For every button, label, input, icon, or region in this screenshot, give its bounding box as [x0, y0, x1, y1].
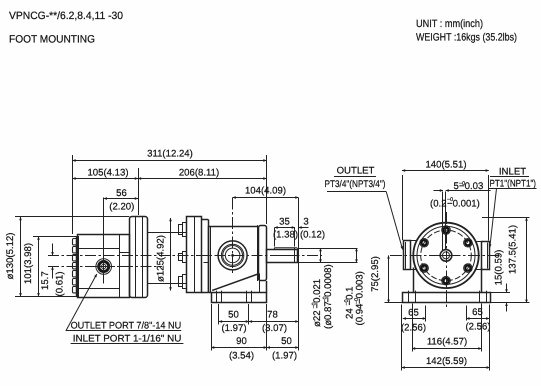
svg-text:50: 50 — [281, 336, 292, 347]
inlet label front view — [488, 166, 537, 247]
dim phi130 — [5, 217, 129, 297]
bolt circle — [421, 230, 472, 281]
foot base front view — [403, 291, 491, 303]
svg-text:UNIT : mm(inch): UNIT : mm(inch) — [416, 18, 483, 30]
svg-text:(1.97): (1.97) — [221, 323, 246, 334]
svg-text:FOOT MOUNTING: FOOT MOUNTING — [9, 34, 95, 46]
svg-text:206(8.11): 206(8.11) — [179, 167, 219, 178]
dim 137.5 — [482, 218, 530, 303]
svg-text:311(12.24): 311(12.24) — [147, 149, 193, 160]
dim 15 foot height — [491, 250, 511, 312]
dim 78 — [249, 309, 299, 334]
front body block — [78, 235, 130, 298]
cover bolt bottom — [442, 276, 451, 285]
front view vertical centerline — [446, 212, 448, 309]
svg-text:101(3.98): 101(3.98) — [23, 243, 34, 284]
svg-text:90: 90 — [236, 336, 247, 347]
dim phi125 — [156, 218, 171, 291]
dim 3 — [299, 216, 326, 240]
svg-text:65: 65 — [472, 307, 483, 318]
svg-text:ø130(5.12): ø130(5.12) — [5, 233, 16, 280]
dim 15.7 — [40, 244, 66, 297]
bearing boss circles — [218, 198, 247, 274]
dim 105 — [73, 167, 139, 215]
drive shaft — [267, 248, 298, 263]
svg-text:(2.56): (2.56) — [401, 322, 426, 333]
svg-text:(0.12): (0.12) — [300, 230, 325, 241]
svg-text:3: 3 — [303, 216, 308, 227]
svg-text:(ø0.87: (ø0.87 — [323, 301, 334, 329]
dim 140 — [402, 159, 489, 240]
dim 50 right — [267, 336, 299, 361]
svg-text:50: 50 — [228, 309, 239, 320]
rear housing — [187, 216, 209, 292]
main bearing housing — [208, 225, 258, 292]
main centerline (side view) — [48, 255, 322, 257]
svg-text:56: 56 — [116, 188, 127, 199]
svg-text:PT3/4"(NPT3/4"): PT3/4"(NPT3/4") — [325, 179, 386, 190]
pump body outer circle — [413, 223, 478, 288]
svg-text:142(5.59): 142(5.59) — [426, 356, 467, 367]
svg-text:OUTLET: OUTLET — [337, 165, 375, 176]
dim 75 — [370, 255, 402, 302]
svg-text:−0.03: −0.03 — [459, 181, 483, 192]
inlet port front view — [475, 242, 489, 270]
svg-text:140(5.51): 140(5.51) — [425, 159, 466, 170]
front cover circle — [417, 226, 475, 284]
dim 104 — [233, 185, 299, 350]
svg-text:65: 65 — [408, 307, 419, 318]
outlet port label side view — [66, 274, 181, 331]
outlet label front view — [325, 165, 403, 249]
svg-text:−0.021: −0.021 — [312, 279, 323, 309]
foot slot centerlines — [413, 304, 482, 352]
cover bolt upper-left — [420, 238, 429, 247]
svg-text:(0.2: (0.2 — [430, 199, 447, 210]
dim 65 left — [401, 306, 426, 334]
svg-text:116(4.57): 116(4.57) — [427, 336, 467, 347]
dim 206 — [138, 167, 267, 178]
svg-text:−0.003): −0.003) — [355, 271, 366, 304]
pilot cylinder between flange and rear housing — [148, 233, 187, 284]
svg-text:PT1"(NPT1"): PT1"(NPT1") — [490, 178, 537, 189]
dim 56 — [104, 188, 138, 213]
cover bolt upper-right — [464, 238, 473, 247]
svg-text:(3.54): (3.54) — [229, 350, 254, 361]
shaft key lines — [443, 192, 446, 251]
svg-text:ø22: ø22 — [312, 310, 323, 327]
svg-text:(1.97): (1.97) — [272, 350, 297, 361]
dim 142 — [402, 305, 490, 371]
cover bolt lower-right — [464, 264, 473, 273]
svg-text:(0.94: (0.94 — [355, 303, 366, 326]
mounting flange — [130, 217, 148, 298]
svg-text:(2.20): (2.20) — [109, 202, 134, 213]
svg-text:75(2.95): 75(2.95) — [370, 256, 381, 292]
svg-text:15.7: 15.7 — [40, 271, 51, 290]
dim 116 — [412, 336, 482, 348]
bearing end cover — [259, 226, 267, 293]
svg-text:VPNCG-**/6.2,8.4,11 -30: VPNCG-**/6.2,8.4,11 -30 — [9, 10, 123, 22]
svg-text:15(0.59): 15(0.59) — [494, 250, 505, 286]
svg-text:(2.56): (2.56) — [465, 321, 490, 332]
foot gusset diagonal — [212, 274, 259, 291]
dim 5 key width — [430, 181, 491, 210]
outlet port front view — [404, 241, 417, 270]
inlet port label side view — [71, 333, 184, 344]
cover bolt top — [442, 226, 451, 235]
shaft diameter extension lines — [297, 249, 357, 263]
svg-text:INLET PORT 1-1/16" NU: INLET PORT 1-1/16" NU — [73, 333, 182, 344]
port centerline (side view) — [48, 266, 162, 268]
svg-text:137.5(5.41): 137.5(5.41) — [508, 225, 519, 274]
svg-text:−0.0008): −0.0008) — [323, 264, 334, 302]
outlet port boss — [93, 198, 116, 284]
cover bolt lower-left — [420, 264, 429, 273]
svg-text:105(4.13): 105(4.13) — [87, 167, 128, 178]
shaft-end ribs — [73, 236, 79, 297]
shaft center boss — [439, 250, 454, 262]
svg-text:−0.001): −0.001) — [447, 199, 480, 210]
svg-text:OUTLET PORT 7/8"-14 NU: OUTLET PORT 7/8"-14 NU — [71, 320, 182, 331]
svg-text:(0.61): (0.61) — [55, 271, 66, 296]
svg-text:104(4.09): 104(4.09) — [245, 185, 286, 196]
dim 65 right — [465, 306, 490, 333]
dim 311 — [73, 149, 267, 235]
dim 50 left — [219, 304, 249, 334]
svg-text:INLET: INLET — [499, 166, 526, 177]
dim phi22 — [311, 248, 334, 329]
dim 101 — [23, 237, 77, 297]
pedestal sides — [414, 268, 482, 293]
front view horizontal centerline — [390, 255, 502, 257]
svg-text:WEIGHT :16kgs (35.2lbs): WEIGHT :16kgs (35.2lbs) — [416, 32, 517, 44]
dim 24 — [344, 248, 366, 325]
dim 90 — [211, 304, 267, 361]
svg-text:78: 78 — [267, 309, 278, 320]
svg-text:ø125(4.92): ø125(4.92) — [156, 235, 167, 282]
rear housing bolt heads — [179, 223, 187, 289]
svg-text:35: 35 — [279, 216, 290, 227]
svg-text:(3.07): (3.07) — [262, 323, 287, 334]
dim 35 — [273, 216, 298, 246]
side view foot — [212, 291, 267, 303]
